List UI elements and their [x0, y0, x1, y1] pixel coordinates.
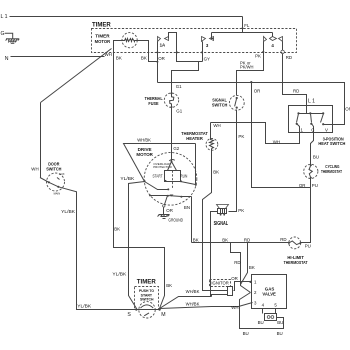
- svg-text:WH/BK: WH/BK: [186, 301, 200, 306]
- label RD below contact 4: [286, 55, 292, 60]
- label OR on drop: [254, 88, 261, 93]
- label PK below signal switch: [238, 134, 244, 139]
- wire M to WH/BK riser: [160, 297, 212, 309]
- svg-text:FUSE: FUSE: [148, 101, 158, 106]
- label PUSH TO START SWITCH: [139, 289, 154, 301]
- wire L1 line: [10, 16, 243, 18]
- junction dot GY at box edge: [201, 51, 203, 53]
- svg-text:RD: RD: [234, 260, 240, 265]
- wire signal switch down PK: [229, 110, 237, 212]
- svg-text:HEATER: HEATER: [186, 136, 203, 141]
- svg-text:BU: BU: [277, 320, 283, 325]
- wire BK timer drop to M: [114, 57, 165, 309]
- svg-text:BK: BK: [114, 227, 120, 232]
- label YL/BK on door drop: [61, 209, 75, 214]
- label BK near M riser: [166, 283, 172, 288]
- wire WH/BK rail: [124, 144, 196, 182]
- label FL: [244, 23, 250, 28]
- ground chassis symbol top-left: [6, 39, 20, 44]
- label YL/BK at motor stub: [120, 176, 134, 181]
- wire contact4 left lead PK: [237, 42, 264, 96]
- svg-text:SWITCH: SWITCH: [46, 167, 62, 172]
- svg-text:BK: BK: [193, 237, 199, 242]
- svg-text:N: N: [5, 56, 9, 62]
- label BU above cycling thermostat: [313, 155, 319, 160]
- junction dot valve terminal 1: [249, 281, 251, 283]
- gas valve box: [252, 275, 287, 309]
- label TIMER at push-to-start: [137, 280, 157, 286]
- label YL/BK on long drop: [112, 271, 126, 276]
- label BK right jog: [141, 56, 147, 61]
- thermostat heater R1: [206, 123, 218, 151]
- svg-text:MOTOR: MOTOR: [136, 152, 153, 157]
- label WH/BK upper: [186, 289, 200, 294]
- wire WH into valve 3: [239, 303, 253, 307]
- wire G lead: [5, 33, 13, 39]
- label RD left of hi-limit: [280, 237, 286, 242]
- label WH at valve: [231, 305, 238, 310]
- label BU solenoid right: [277, 320, 283, 325]
- wire 1A left lead down: [157, 42, 159, 83]
- wire thermal fuse to motor G2: [171, 108, 173, 162]
- svg-text:M: M: [161, 312, 165, 318]
- svg-text:BU: BU: [258, 320, 264, 325]
- label PU at hi-limit: [305, 244, 311, 249]
- label OR right-edge: [345, 107, 350, 112]
- label WH at timer motor junction: [105, 52, 112, 57]
- svg-text:1A: 1A: [160, 43, 166, 48]
- label YL/BK on bottom run: [77, 304, 91, 309]
- junction dot OR branch: [250, 81, 252, 83]
- wire timer motor left lead: [114, 41, 123, 57]
- cycling thermostat: [304, 164, 318, 179]
- heat switch internals: [296, 112, 333, 132]
- svg-text:PK: PK: [238, 208, 244, 213]
- junction dot 1A at OR jog: [156, 61, 158, 63]
- label PU right of junction: [312, 183, 318, 188]
- svg-text:PU: PU: [305, 244, 311, 249]
- wire motor ground lead: [163, 208, 165, 215]
- svg-text:BK: BK: [249, 265, 255, 270]
- svg-text:WH: WH: [273, 140, 280, 145]
- label M terminal: [161, 312, 165, 318]
- TIMER dashed box: [92, 29, 297, 53]
- wire OR drop to cycling thermostat rail: [252, 83, 311, 188]
- wire cycling thermostat down to hi-limit: [301, 178, 311, 243]
- label BK on rail mid: [222, 237, 228, 242]
- svg-text:OR: OR: [158, 56, 165, 61]
- svg-text:G1: G1: [176, 108, 182, 113]
- wire contact3 left lead GY: [202, 42, 204, 62]
- label BK on timer drop: [114, 227, 120, 232]
- svg-text:OR: OR: [231, 276, 238, 281]
- label THERMOSTAT HEATER: [181, 131, 208, 141]
- node N: [5, 56, 9, 62]
- svg-text:OR: OR: [166, 208, 173, 213]
- junction dot 1A right at box edge: [176, 51, 178, 53]
- signal horn: [217, 205, 229, 216]
- label BU bottom left: [243, 331, 249, 336]
- label BK below heater: [213, 170, 219, 175]
- svg-text:V: V: [325, 127, 328, 132]
- label PK or PK/WH: [240, 61, 254, 70]
- contact 4: [264, 33, 283, 49]
- wire N line: [11, 56, 105, 58]
- svg-text:BU: BU: [277, 331, 283, 336]
- svg-text:BU: BU: [313, 155, 319, 160]
- svg-text:SWITCH: SWITCH: [212, 102, 228, 107]
- svg-text:WH/BK: WH/BK: [186, 289, 200, 294]
- label TIMER: [92, 22, 111, 29]
- label 3-POSITION HEAT SWITCH: [318, 136, 346, 146]
- svg-text:IGNITOR: IGNITOR: [211, 281, 228, 286]
- label RD at bend: [293, 89, 299, 94]
- wire YL/BK motor stub down to S: [129, 182, 145, 309]
- 3-position heat switch box: [289, 106, 333, 133]
- svg-text:RD: RD: [293, 89, 299, 94]
- svg-text:GY: GY: [204, 56, 210, 61]
- wire timer motor right lead: [137, 41, 158, 62]
- svg-text:RD: RD: [280, 237, 286, 242]
- wire main OR/WH horizontal run: [158, 83, 345, 125]
- thermal fuse F1: [164, 92, 178, 108]
- svg-text:G: G: [1, 31, 5, 37]
- label DRIVE MOTOR: [136, 147, 153, 157]
- label OR at ignitor: [231, 276, 238, 281]
- junction dot 1A at box edge: [156, 51, 158, 53]
- svg-text:YL/BK: YL/BK: [120, 176, 134, 181]
- svg-text:MOTOR: MOTOR: [95, 39, 111, 44]
- svg-text:BK: BK: [116, 56, 122, 61]
- svg-text:L 1: L 1: [308, 98, 315, 104]
- push-to-start switch dashed box: [135, 287, 159, 310]
- gas valve solenoid: [263, 309, 277, 321]
- wire heater BK down to ignitor drop: [203, 149, 218, 291]
- wire contact3 right riser: [212, 33, 214, 39]
- push-to-start switch contact circle: [135, 302, 161, 318]
- label RD on rail: [244, 237, 250, 242]
- open terminal circle RD at box edge: [281, 50, 284, 53]
- svg-text:BN: BN: [184, 205, 190, 210]
- svg-text:BK: BK: [222, 237, 228, 242]
- label BU solenoid left: [258, 320, 264, 325]
- node L1: [1, 14, 8, 20]
- label OR below 1A: [158, 56, 165, 61]
- svg-text:PK: PK: [238, 134, 244, 139]
- wire contact4 right lead RD: [282, 42, 284, 51]
- label GY: [204, 56, 210, 61]
- svg-text:BK: BK: [141, 56, 147, 61]
- label G2 at motor entry: [173, 146, 179, 151]
- label PK at horn: [238, 208, 244, 213]
- svg-text:SWITCH: SWITCH: [140, 298, 154, 302]
- label HI-LIMIT THERMOSTAT: [284, 255, 308, 265]
- svg-text:OR: OR: [299, 183, 306, 188]
- wire M to WH valve run: [160, 307, 239, 309]
- svg-text:C: C: [311, 127, 314, 132]
- junction dot PK at box edge: [262, 51, 264, 53]
- label L1 at heat switch feed: [308, 98, 315, 104]
- label DOOR SWITCH: [46, 162, 62, 172]
- svg-text:PU: PU: [312, 183, 318, 188]
- label BN at motor exit: [184, 205, 190, 210]
- label GROUND: [168, 217, 183, 222]
- svg-text:PK: PK: [255, 53, 261, 58]
- wire contacts top rail: [212, 32, 273, 34]
- svg-text:G1: G1: [176, 84, 182, 89]
- label WH on lower run: [273, 140, 280, 145]
- label G1 above thermal fuse: [176, 84, 182, 89]
- label CYCLING THERMOSTAT: [321, 164, 342, 174]
- svg-text:OR: OR: [345, 107, 350, 112]
- label OR at ground lead: [166, 208, 173, 213]
- svg-text:FL: FL: [244, 23, 250, 28]
- wire BN down to BK/RD rail: [191, 197, 193, 243]
- svg-text:WH: WH: [105, 52, 112, 57]
- label G1 below fuse: [176, 108, 182, 113]
- label OR left of junction: [299, 183, 306, 188]
- svg-text:VALVE: VALVE: [262, 291, 276, 296]
- svg-text:BK: BK: [166, 283, 172, 288]
- wire thermostat heater top rail to heat switch 1: [211, 123, 300, 144]
- svg-text:L 1: L 1: [1, 14, 8, 20]
- label SIGNAL: [214, 221, 229, 227]
- wire RD down to heat switch: [283, 54, 307, 114]
- svg-text:YL/BK: YL/BK: [61, 209, 75, 214]
- svg-text:WH: WH: [231, 305, 238, 310]
- wire heat switch C to cycling thermostat: [311, 133, 314, 165]
- svg-text:TIMER: TIMER: [92, 22, 111, 29]
- label TIMER MOTOR: [95, 33, 111, 44]
- svg-text:START: START: [153, 173, 163, 178]
- wire RD step down to gas valve 2: [231, 243, 251, 293]
- label BU bottom right: [277, 331, 283, 336]
- svg-text:RUN: RUN: [180, 173, 187, 178]
- wire door switch YL/BK to push-to-start: [58, 187, 136, 310]
- label WH/BK motor feed: [137, 137, 151, 142]
- label BK on rail left: [193, 237, 199, 242]
- node G: [1, 31, 5, 37]
- svg-text:MAIN: MAIN: [54, 192, 61, 196]
- label S terminal: [127, 312, 131, 318]
- wire GY jog to thermal fuse: [172, 62, 203, 93]
- ground chassis symbol motor: [158, 215, 170, 219]
- wire BK/RD bottom rail: [192, 242, 289, 244]
- hi-limit thermostat: [288, 237, 302, 249]
- label SIGNAL SWITCH: [212, 98, 228, 108]
- ignitor plug: [212, 287, 233, 297]
- drive motor M2: [144, 153, 197, 206]
- wire BK drop to valve: [241, 243, 248, 285]
- svg-text:WH: WH: [31, 167, 38, 172]
- label RD on step: [234, 260, 240, 265]
- svg-text:PK/WH: PK/WH: [240, 65, 254, 70]
- label PK: [255, 53, 261, 58]
- svg-text:TIMER: TIMER: [95, 33, 110, 38]
- svg-text:HEAT SWITCH: HEAT SWITCH: [318, 141, 346, 146]
- signal switch: [229, 95, 244, 110]
- label WH heater top: [213, 123, 220, 128]
- wire ignitor OR lead to valve 1: [234, 282, 252, 291]
- svg-text:SIGNAL: SIGNAL: [214, 221, 229, 227]
- svg-text:OR: OR: [254, 88, 261, 93]
- svg-text:BU: BU: [243, 331, 249, 336]
- wire N diagonal to timer motor: [41, 49, 112, 103]
- svg-text:RD: RD: [286, 55, 292, 60]
- svg-text:TIMER: TIMER: [137, 280, 157, 286]
- label IGNITOR: [210, 280, 231, 287]
- door switch: [40, 172, 65, 196]
- svg-text:BK: BK: [213, 170, 219, 175]
- junction dot FL: [242, 27, 244, 29]
- wire WH/BK right drop to motor: [195, 144, 197, 185]
- label THERMAL FUSE: [145, 96, 163, 106]
- svg-text:G2: G2: [173, 146, 179, 151]
- svg-text:S: S: [127, 312, 131, 318]
- timer motor coil M1: [122, 33, 137, 48]
- motor internals: [143, 160, 196, 208]
- svg-text:THERMOSTAT: THERMOSTAT: [284, 260, 308, 265]
- label BK left of BK riser: [116, 56, 122, 61]
- svg-text:THERMOSTAT: THERMOSTAT: [321, 169, 342, 174]
- wire valve 2 cross to bottom loop: [240, 293, 284, 329]
- svg-text:AUX: AUX: [59, 172, 65, 176]
- label BK on valve drop: [249, 265, 255, 270]
- contact 1A: [158, 37, 169, 48]
- svg-text:YL/BK: YL/BK: [77, 304, 91, 309]
- label WH door wire: [31, 167, 38, 172]
- wire horn left lead down: [211, 212, 218, 297]
- contact 3: [202, 37, 214, 49]
- svg-text:WH/BK: WH/BK: [137, 137, 151, 142]
- wire WH vertical to door switch: [40, 103, 42, 178]
- svg-text:YL/BK: YL/BK: [112, 271, 126, 276]
- gas valve terminal labels: [254, 280, 277, 308]
- label GAS VALVE: [262, 286, 276, 296]
- svg-text:RD: RD: [244, 237, 250, 242]
- svg-text:GROUND: GROUND: [168, 217, 183, 222]
- svg-text:WH: WH: [213, 123, 220, 128]
- wire 1A right path to contact 3: [169, 33, 203, 62]
- label WH/BK lower: [186, 301, 200, 306]
